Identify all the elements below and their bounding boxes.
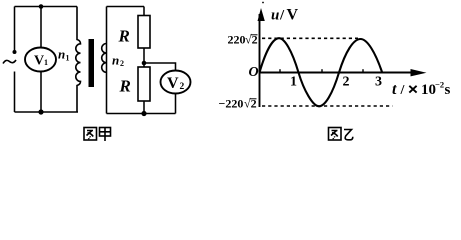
wire primary loop left upper segment	[14, 7, 16, 51]
wire secondary loop left	[106, 7, 108, 114]
svg-text:220: 220	[228, 33, 246, 47]
svg-text:n: n	[58, 47, 65, 62]
svg-text:3: 3	[375, 75, 382, 90]
svg-text:R: R	[119, 77, 131, 96]
node top junction	[39, 4, 44, 9]
dotted line at +220sqrt2	[262, 37, 358, 39]
svg-text:2: 2	[343, 75, 350, 90]
svg-text:n: n	[112, 53, 119, 68]
caption 图乙	[329, 128, 353, 141]
wire V2 top link	[144, 63, 176, 71]
svg-text:u: u	[271, 8, 279, 24]
sine curve	[260, 38, 383, 106]
voltmeter V1	[25, 48, 56, 72]
wire between resistors	[143, 48, 145, 67]
svg-text:1: 1	[290, 75, 297, 90]
tick t=0.5	[279, 69, 281, 72]
transformer core	[89, 39, 95, 87]
resistor R top	[138, 16, 150, 49]
svg-text:V: V	[287, 7, 299, 24]
axis label u/V	[271, 7, 299, 24]
svg-text:2: 2	[180, 82, 185, 92]
voltmeter V2	[161, 71, 191, 94]
svg-text:V: V	[34, 54, 44, 69]
dotted line at -220sqrt2	[262, 105, 393, 107]
AC source ~ symbol	[3, 60, 16, 64]
x-axis	[260, 72, 413, 74]
speck	[262, 2, 264, 4]
AC source terminal dot	[13, 50, 17, 54]
svg-text:V: V	[167, 75, 179, 92]
x-axis arrowhead	[411, 69, 427, 76]
wire primary loop left lower segment	[14, 72, 16, 113]
node B bottom junction	[141, 111, 146, 116]
svg-text:10: 10	[421, 82, 436, 98]
tick t=2.5	[362, 69, 364, 72]
svg-text:−220: −220	[219, 97, 244, 111]
caption 图甲	[84, 128, 111, 142]
svg-text:s: s	[445, 82, 451, 98]
node bottom junction	[38, 109, 43, 114]
wire V1 branch upper	[40, 7, 42, 49]
transformer primary coil n1	[76, 7, 81, 113]
wire V1 branch lower	[40, 72, 42, 113]
tick t=1.5	[321, 69, 323, 72]
wire secondary right lower lead	[143, 101, 145, 114]
label -220sqrt2	[219, 97, 257, 111]
wire primary loop bottom	[15, 111, 79, 113]
svg-text:1: 1	[66, 54, 70, 63]
y-axis	[259, 14, 261, 107]
y-axis arrowhead	[258, 8, 265, 21]
transformer secondary coil n2	[102, 43, 107, 72]
wire secondary right upper lead	[143, 7, 145, 16]
axis label t/x10^-2 s	[392, 80, 451, 99]
svg-text:R: R	[118, 27, 130, 46]
resistor R bottom	[138, 67, 150, 101]
svg-text:2: 2	[120, 59, 124, 68]
wire primary loop top	[15, 6, 78, 8]
wire V2 bottom link	[175, 94, 177, 114]
svg-text:−2: −2	[435, 80, 444, 90]
svg-text:O: O	[249, 65, 259, 80]
svg-text:/: /	[279, 8, 285, 24]
label 220sqrt2	[228, 33, 258, 47]
wire secondary loop bottom	[107, 113, 176, 115]
svg-text:t: t	[392, 81, 397, 98]
node A junction between resistors	[142, 61, 147, 66]
wire secondary loop top	[107, 6, 145, 8]
svg-text:1: 1	[44, 58, 48, 67]
